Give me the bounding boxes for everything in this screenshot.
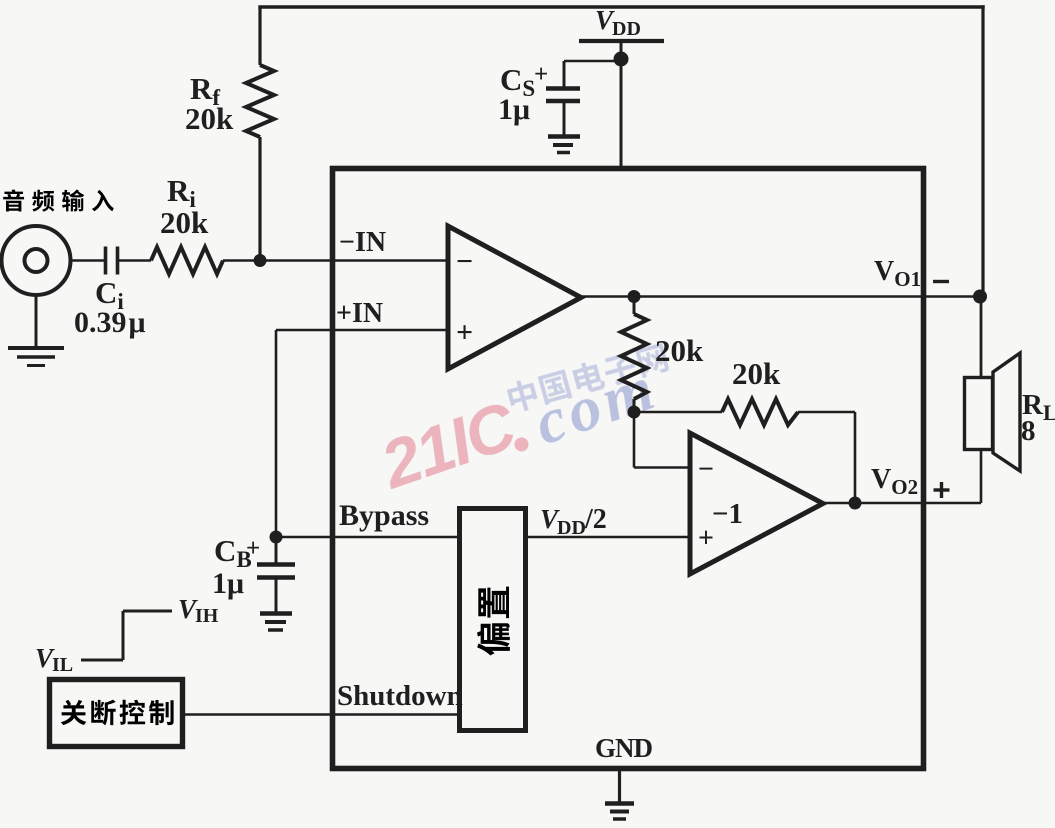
polarity minus (VO1) bbox=[933, 280, 949, 283]
op-amp U1A bbox=[448, 226, 581, 369]
svg-text:DD: DD bbox=[557, 517, 586, 539]
svg-text:8: 8 bbox=[1021, 415, 1036, 447]
svg-text:20k: 20k bbox=[655, 333, 704, 368]
ground (CB) bbox=[260, 611, 292, 616]
op-amp U1B bbox=[690, 433, 823, 574]
signal step: VIL level bbox=[81, 659, 123, 662]
svg-text:IH: IH bbox=[195, 605, 219, 627]
svg-text:+: + bbox=[246, 535, 260, 562]
node: VO1 output junction bbox=[973, 290, 987, 304]
IC amplifier body bbox=[333, 169, 924, 769]
svg-text:1μ: 1μ bbox=[498, 93, 530, 126]
svg-text:+: + bbox=[534, 61, 548, 88]
svg-text:/2: /2 bbox=[584, 504, 607, 535]
signal step: edge bbox=[122, 611, 125, 660]
wire: +IN pin bbox=[276, 329, 448, 332]
wire: shutdown control to Shutdown pin bbox=[182, 713, 459, 716]
wire: right bus vertical (top corner down to VO1 node) bbox=[981, 5, 984, 297]
node: VO2 junction bbox=[849, 497, 862, 510]
node: Rf / input junction bbox=[254, 254, 267, 267]
wire: Rf bottom lead bbox=[258, 137, 261, 262]
wire: VDD to IC top bbox=[620, 41, 623, 169]
node: bypass junction bbox=[270, 531, 283, 544]
svg-text:−IN: −IN bbox=[339, 227, 386, 258]
resistor 20k (internal horizontal) bbox=[722, 399, 798, 425]
wire: VDD/2 to U1B + input bbox=[526, 536, 690, 539]
capacitor CB bbox=[275, 537, 278, 564]
wire: feedback junction to U1B inverting input bbox=[633, 412, 636, 468]
wire: connector to Ci bbox=[69, 259, 104, 262]
speaker RL body bbox=[965, 378, 993, 450]
svg-text:−: − bbox=[456, 245, 473, 278]
wire: U1A output to VO1 bbox=[579, 295, 983, 298]
shutdown control box 关断控制 bbox=[50, 680, 183, 747]
ground (GND pin) bbox=[605, 801, 634, 805]
svg-text:20k: 20k bbox=[160, 205, 209, 240]
svg-text:1μ: 1μ bbox=[212, 567, 244, 600]
wire: junction to horizontal 20k bbox=[634, 411, 722, 414]
wire: U1B output VO2 bbox=[821, 502, 981, 505]
node: VDD junction bbox=[614, 52, 629, 67]
ground (CS) bbox=[548, 134, 580, 139]
svg-text:+IN: +IN bbox=[336, 298, 383, 329]
svg-text:Bypass: Bypass bbox=[339, 499, 429, 532]
resistor 20k (internal vertical) bbox=[633, 297, 636, 315]
wire: VO1 node down to speaker top bbox=[980, 296, 983, 379]
supply VDD bar bbox=[579, 39, 664, 43]
polarity plus (VO2) bbox=[934, 488, 950, 491]
node: U1A output junction bbox=[628, 290, 641, 303]
speaker RL cone bbox=[993, 353, 1020, 471]
wire: VDD junction to CS bbox=[564, 60, 621, 63]
node: feedback junction bbox=[628, 406, 641, 419]
capacitor CS bbox=[546, 86, 580, 91]
ground (input connector) bbox=[35, 294, 38, 349]
resistor Ri bbox=[151, 247, 223, 274]
wire: top feedback bus (Rf top to right bus) bbox=[258, 5, 984, 8]
resistor Rf bbox=[246, 65, 274, 137]
svg-text:GND: GND bbox=[595, 733, 653, 763]
svg-text:0.39μ: 0.39μ bbox=[74, 306, 146, 339]
signal step: VIH level bbox=[123, 610, 172, 613]
wire: Ci to Ri bbox=[118, 259, 152, 262]
wire: CS to ground bbox=[563, 101, 566, 136]
wire: speaker to VO2 line bbox=[980, 449, 983, 503]
capacitor Ci bbox=[104, 247, 108, 275]
label 音频输入 bbox=[3, 189, 114, 211]
bias block 偏置 bbox=[460, 509, 526, 731]
audio input connector bbox=[2, 226, 71, 295]
svg-text:−: − bbox=[698, 454, 714, 485]
svg-text:+: + bbox=[456, 316, 473, 349]
svg-text:−1: −1 bbox=[712, 498, 743, 530]
wire: Rf top lead bbox=[258, 7, 261, 65]
watermark 中国电子网 bbox=[505, 341, 670, 414]
wire: horizontal 20k to VO2 node bbox=[798, 411, 855, 414]
watermark 21IC.com bbox=[371, 340, 667, 510]
wire: +IN to bypass node vertical bbox=[275, 330, 278, 537]
svg-text:20k: 20k bbox=[732, 356, 781, 391]
svg-text:IL: IL bbox=[52, 654, 73, 676]
svg-text:20k: 20k bbox=[185, 101, 234, 136]
wire: Bypass pin bbox=[276, 536, 459, 539]
wire: Ri to -IN pin bbox=[223, 259, 448, 262]
wire: GND pin bbox=[618, 768, 621, 803]
svg-text:DD: DD bbox=[612, 18, 641, 40]
svg-text:Shutdown: Shutdown bbox=[337, 680, 463, 712]
